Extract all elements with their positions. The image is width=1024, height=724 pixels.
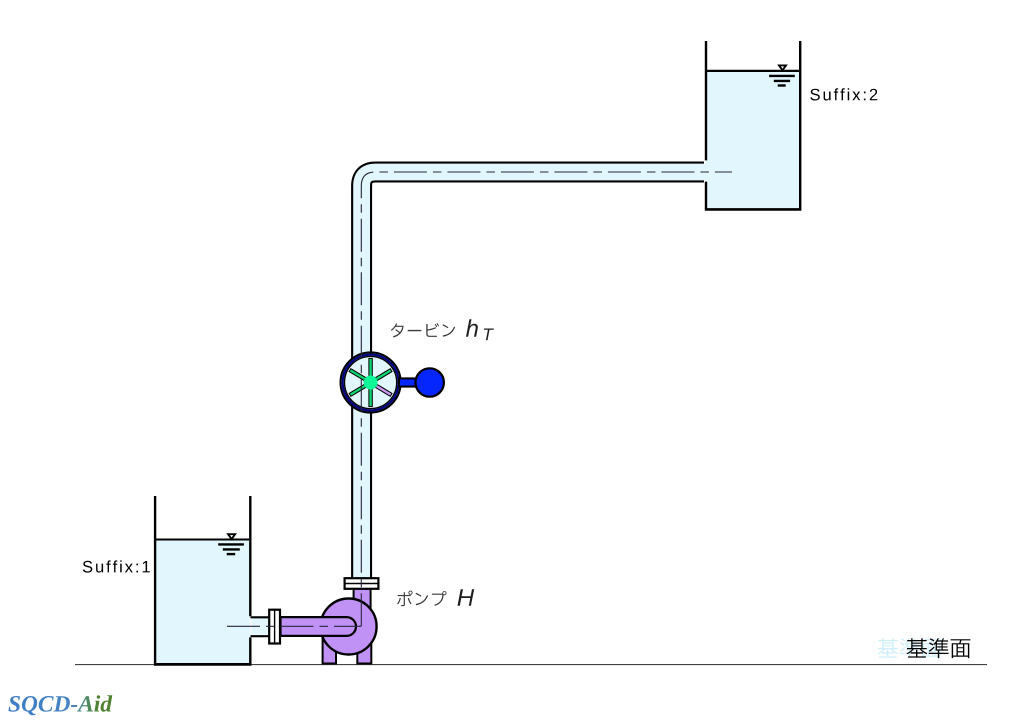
- label turbine (katakana): [391, 323, 455, 337]
- tank 1 water-level symbol: [218, 534, 244, 554]
- pump suction capsule pipe: [281, 617, 357, 636]
- label pump (katakana): [397, 591, 446, 607]
- turbine casing inner black ring: [345, 356, 397, 408]
- datum label (kijunmen): [907, 638, 971, 658]
- tank 1 walls: [154, 496, 252, 664]
- label h_T: [466, 319, 494, 340]
- tank 2 walls: [705, 41, 802, 209]
- discharge flange: [345, 578, 379, 589]
- tank 2 water-level symbol: [769, 65, 795, 85]
- label H: [458, 589, 475, 606]
- pipe water fill: [362, 172, 707, 580]
- turbine runner spokes: [349, 359, 392, 407]
- turbine casing outer circle: [341, 352, 401, 412]
- tank 2 (Suffix:2 reservoir) water fill: [706, 71, 800, 209]
- turbine hub: [364, 376, 378, 390]
- label Suffix:1: [83, 560, 150, 572]
- ground / datum line: [75, 664, 987, 666]
- suction nozzle stub from tank 1: [252, 619, 270, 635]
- centerline: suction run: [227, 625, 361, 627]
- centerline: riser and horizontal run: [361, 172, 732, 626]
- turbine casing inner navy ring: [343, 355, 399, 411]
- pump legs: [323, 635, 372, 664]
- suction flange: [269, 610, 280, 644]
- turbine generator ball: [416, 368, 444, 396]
- pipe outline (vertical riser and horizontal run): [362, 172, 704, 580]
- datum label cyan shadow: [878, 638, 942, 658]
- pump discharge pipe (purple vertical): [354, 586, 371, 611]
- turbine shaft rod: [399, 378, 418, 386]
- pump volute circle: [321, 599, 377, 655]
- tank 1 (Suffix:1 reservoir) water fill: [155, 540, 250, 664]
- label Suffix:2: [810, 88, 877, 100]
